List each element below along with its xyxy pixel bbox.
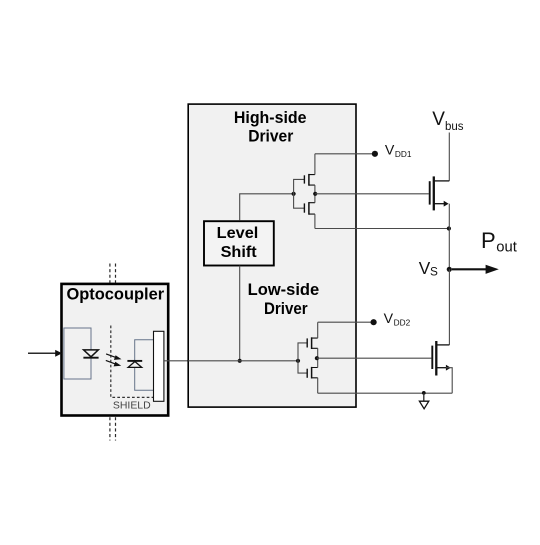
- light emission arrows: [106, 354, 122, 367]
- wire low-side output to Q6 gate: [317, 357, 432, 359]
- wire VDD2 rail: [318, 321, 374, 323]
- svg-text:DD1: DD1: [395, 149, 412, 159]
- node VDD1: [372, 151, 378, 157]
- wire level shift top to high-side input: [240, 194, 294, 220]
- high-side PMOS Q1: [304, 174, 315, 186]
- output arrow Pout: [452, 265, 499, 274]
- node source rail junction: [447, 226, 451, 230]
- LED D1: [83, 350, 98, 358]
- svg-text:V: V: [385, 143, 395, 159]
- high-side inverter gate leads: [294, 179, 305, 208]
- input signal arrow: [28, 350, 62, 357]
- svg-text:out: out: [496, 240, 517, 256]
- shield dashed boundary: [111, 326, 154, 398]
- photodiode loop wire: [135, 340, 154, 390]
- svg-text:Level: Level: [217, 225, 259, 242]
- svg-text:Driver: Driver: [248, 128, 294, 146]
- wire level shift bottom to low-side input: [239, 266, 241, 361]
- level shift box U1: [204, 221, 274, 265]
- wire optocoupler output to driver box: [164, 360, 188, 362]
- low-side inverter gate leads: [298, 343, 307, 373]
- node low-side gate input: [296, 359, 300, 363]
- wire Q6 source to ground rail: [446, 368, 452, 394]
- isolation barrier bottom dashed lines: [110, 417, 116, 440]
- isolation barrier top dashed lines: [110, 264, 116, 283]
- svg-text:V: V: [419, 258, 431, 278]
- wire Q5 source to VS: [448, 204, 450, 270]
- shield electrode: [154, 331, 164, 401]
- low-side NMOS Q4: [307, 367, 318, 379]
- svg-text:High-side: High-side: [234, 109, 307, 127]
- label Level Shift: [217, 225, 259, 261]
- power MOSFET Q6 low side: [432, 341, 451, 376]
- wire VS to Q6 drain: [448, 269, 450, 345]
- wire ground rail: [318, 392, 453, 394]
- low-side PMOS Q3: [307, 337, 318, 349]
- svg-text:Optocoupler: Optocoupler: [67, 285, 165, 304]
- high-side inverter vertical leads: [314, 154, 316, 229]
- svg-text:Driver: Driver: [264, 300, 308, 318]
- label Low-side Driver: [248, 281, 320, 318]
- node low-side wire junction: [238, 359, 242, 363]
- svg-text:V: V: [384, 311, 394, 327]
- svg-text:V: V: [432, 109, 445, 130]
- wire VDD1 rail: [315, 153, 375, 155]
- optocoupler box: [62, 284, 169, 416]
- high-side NMOS Q2: [304, 202, 315, 215]
- wire high-side output to Q5 gate: [315, 193, 429, 195]
- svg-text:bus: bus: [445, 121, 464, 133]
- label High-side Driver: [234, 109, 307, 146]
- node high-side input: [292, 192, 296, 196]
- svg-text:DD2: DD2: [394, 318, 411, 328]
- ground symbol: [419, 393, 428, 409]
- photodiode D2: [127, 361, 142, 368]
- svg-text:P: P: [481, 228, 496, 253]
- svg-text:Low-side: Low-side: [248, 281, 320, 299]
- node ground tap: [422, 391, 426, 395]
- power MOSFET Q5 high side: [430, 176, 450, 210]
- node high-side output: [313, 192, 317, 196]
- svg-text:Shift: Shift: [221, 244, 258, 261]
- node VDD2: [371, 319, 377, 325]
- wire high-side source rail to VS line: [315, 228, 449, 230]
- svg-text:SHIELD: SHIELD: [113, 400, 151, 411]
- node VS: [447, 267, 452, 272]
- node low-side output: [315, 356, 319, 360]
- LED loop wire: [64, 328, 91, 379]
- driver box: [188, 104, 356, 407]
- wire low-side input run: [188, 360, 298, 362]
- wire Vbus to Q5 drain: [448, 133, 450, 181]
- svg-text:S: S: [430, 264, 438, 278]
- low-side inverter vertical leads: [317, 322, 319, 393]
